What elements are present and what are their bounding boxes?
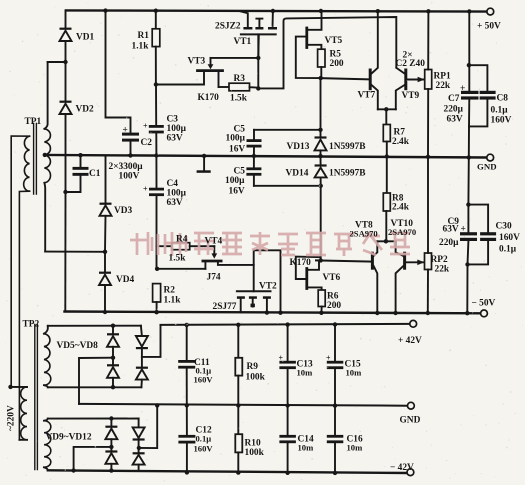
capacitor C7: [468, 11, 470, 90]
svg-text:16V: 16V: [229, 187, 245, 197]
svg-text:63V: 63V: [443, 225, 459, 235]
diode VD9: [110, 419, 112, 426]
resistor R4: [157, 245, 172, 247]
transformer TP2 primary winding: [21, 387, 27, 440]
terminal -42V: [407, 469, 414, 476]
svg-text:VT3: VT3: [188, 57, 206, 67]
wire C9C30 bottom to -50V rail: [466, 264, 468, 313]
wire lower bridge right mid to GND rail: [139, 405, 158, 448]
transistor VT10 2SA970: [403, 253, 406, 268]
svg-text:RP2: RP2: [431, 255, 448, 265]
svg-text:1.5k: 1.5k: [169, 254, 187, 264]
transformer TP2 secondary 2: [44, 421, 51, 468]
svg-text:VD13: VD13: [287, 142, 310, 152]
svg-text:1N5997B: 1N5997B: [329, 142, 365, 152]
svg-text:TP2: TP2: [23, 320, 40, 330]
transistor VT1 (2SJZ2 mosfet): [243, 27, 252, 30]
transformer TP1 core: [34, 124, 37, 195]
wire center 0V rail: [44, 155, 486, 158]
svg-text:VT6: VT6: [323, 273, 341, 283]
transistor VT4 (J74 jfet): [213, 246, 215, 254]
svg-text:R4: R4: [176, 235, 188, 245]
terminal -50V: [481, 310, 488, 317]
wire VT8 VT10 emitter node: [377, 240, 395, 242]
svg-text:C7: C7: [448, 94, 460, 104]
capacitor C9: [467, 157, 469, 232]
terminal GND lower: [408, 402, 415, 409]
svg-text:2.4k: 2.4k: [392, 203, 410, 213]
svg-text:VT1: VT1: [234, 37, 252, 47]
capacitor C14: [287, 406, 289, 435]
wire VT5 drain from top rail: [320, 10, 321, 12]
svg-text:1.5k: 1.5k: [230, 94, 248, 104]
wire VD1-VD2 node to secondary: [48, 61, 66, 63]
svg-text:VT4: VT4: [205, 237, 223, 247]
svg-text:VD3: VD3: [114, 206, 133, 216]
wire upper bridge left mid to GND: [79, 358, 113, 404]
resistor R10: [237, 406, 239, 435]
svg-text:VD4: VD4: [116, 275, 135, 285]
resistor R5: [318, 49, 325, 67]
capacitor C4: [155, 156, 157, 188]
wire top rail jog to C2: [106, 11, 131, 133]
svg-text:+: +: [143, 185, 148, 194]
transformer TP2 secondary 1: [44, 334, 51, 385]
svg-text:100μ: 100μ: [225, 176, 245, 186]
resistor R1: [155, 11, 157, 29]
wire C7C8 bottom to 0V rail: [468, 126, 470, 157]
svg-text:22k: 22k: [435, 265, 450, 275]
svg-text:− 50V: − 50V: [472, 299, 496, 309]
svg-text:VT7: VT7: [358, 91, 376, 101]
terminal +50V: [487, 8, 494, 15]
svg-text:10m: 10m: [297, 368, 314, 378]
terminal GND upper: [487, 154, 494, 161]
svg-text:63V: 63V: [167, 198, 183, 208]
svg-text:160V: 160V: [491, 116, 512, 126]
resistor R6: [308, 287, 322, 290]
svg-text:C8: C8: [497, 94, 509, 104]
diode VD12: [138, 448, 140, 453]
svg-text:63V: 63V: [167, 134, 183, 144]
capacitor C5: [253, 130, 255, 139]
diode VD8: [141, 357, 143, 367]
diode VD3: [100, 203, 112, 205]
svg-text:160V: 160V: [194, 444, 214, 454]
terminals: [407, 8, 494, 475]
svg-text:2×3300μ: 2×3300μ: [109, 162, 144, 172]
svg-text:+: +: [279, 354, 284, 363]
svg-text:GND: GND: [400, 416, 421, 426]
wire TP1 primary bottom lead to ~220V line: [19, 191, 29, 440]
svg-text:+: +: [461, 225, 466, 235]
potentiometer RP1: [425, 70, 432, 90]
svg-text:+ 50V: + 50V: [477, 22, 501, 32]
wire -42V rail: [48, 470, 407, 473]
transistor VT8 2SA970: [371, 253, 374, 268]
transistor VT2 (2SJ77 mosfet): [237, 290, 271, 292]
svg-text:VT5: VT5: [325, 36, 343, 46]
terminal +42V: [410, 320, 417, 327]
diode VD7: [141, 326, 142, 336]
svg-text:J74: J74: [207, 273, 221, 283]
svg-text:2SJZ2: 2SJZ2: [215, 22, 241, 32]
svg-text:VT2: VT2: [259, 282, 277, 292]
diode VD6: [107, 364, 119, 366]
wire GND lower rail: [79, 404, 407, 406]
svg-text:200: 200: [327, 301, 341, 311]
svg-text:VD14: VD14: [286, 169, 309, 179]
svg-text:+: +: [123, 126, 128, 136]
diode VD11: [138, 419, 140, 428]
svg-text:C2: C2: [141, 138, 153, 148]
svg-text:200: 200: [330, 59, 344, 69]
capacitor C8: [469, 65, 487, 91]
diode VD10: [105, 450, 117, 452]
transistor VT7: [369, 70, 372, 89]
svg-text:+: +: [460, 84, 465, 94]
svg-text:R5: R5: [330, 50, 342, 60]
wire upper bridge top: [48, 325, 141, 327]
svg-text:R10: R10: [245, 439, 261, 449]
diode VD13 1N5997B: [320, 78, 322, 137]
svg-text:10m: 10m: [346, 368, 363, 378]
svg-text:2.4k: 2.4k: [392, 137, 410, 147]
svg-text:VT9: VT9: [402, 91, 420, 101]
svg-text:K170: K170: [290, 258, 312, 268]
capacitor C1: [73, 167, 89, 170]
svg-text:VD5~VD8: VD5~VD8: [57, 341, 99, 351]
wire C5 top to VD13 node: [254, 129, 321, 131]
svg-text:+ 42V: + 42V: [398, 336, 422, 346]
svg-text:2SJ77: 2SJ77: [213, 302, 237, 312]
svg-text:220μ: 220μ: [444, 105, 464, 115]
wire lower bridge top: [48, 418, 139, 420]
svg-text:+: +: [143, 122, 148, 131]
resistor R9: [237, 325, 239, 358]
wire TP1 secondary bottom lead: [43, 183, 46, 252]
svg-text:C30: C30: [496, 222, 512, 232]
svg-text:C3: C3: [167, 115, 179, 125]
wire TP2 primary leads: [11, 387, 28, 440]
diode VD2: [60, 101, 72, 103]
wire VT4 drain to VT2 gate: [218, 261, 254, 265]
svg-text:RP1: RP1: [434, 72, 451, 82]
svg-text:R1: R1: [138, 31, 150, 41]
capacitor C30: [468, 205, 488, 233]
wire VT3 gate to node: [211, 57, 259, 59]
wire VT1 source loop to R3 node: [258, 17, 396, 88]
capacitor C13: [287, 325, 289, 361]
svg-text:63V: 63V: [447, 115, 463, 125]
capacitor C12: [186, 405, 188, 435]
svg-text:160V: 160V: [194, 375, 214, 385]
svg-text:R9: R9: [247, 362, 259, 372]
svg-text:10m: 10m: [347, 443, 364, 453]
svg-text:2SA970: 2SA970: [388, 227, 416, 237]
svg-text:R2: R2: [164, 286, 176, 296]
svg-text:VD2: VD2: [76, 105, 95, 115]
svg-text:+: +: [326, 354, 331, 363]
svg-text:100k: 100k: [246, 373, 266, 383]
svg-text:2SA970: 2SA970: [350, 229, 378, 239]
svg-text:VD1: VD1: [76, 33, 95, 43]
svg-text:0.1μ: 0.1μ: [196, 434, 212, 444]
svg-text:~220V: ~220V: [7, 405, 17, 431]
wire VT1 gate down: [257, 34, 260, 58]
wire upper bridge bottom: [48, 386, 142, 388]
capacitor C16: [334, 406, 336, 435]
diode VD4: [99, 272, 111, 274]
transformer TP2 core: [35, 325, 38, 470]
resistor R8: [386, 157, 388, 194]
wire upper bridge right mid to +42V: [142, 325, 161, 357]
transistor VT5 (jfet current source): [305, 28, 308, 48]
wire top +rail: [66, 10, 489, 11]
svg-text:K170: K170: [198, 93, 220, 103]
capacitor C6: [253, 156, 255, 167]
svg-text:1.1k: 1.1k: [164, 296, 182, 306]
svg-text:TP1: TP1: [25, 117, 42, 127]
svg-text:160V: 160V: [499, 233, 520, 243]
svg-text:− 42V: − 42V: [390, 463, 414, 473]
wire VT10 base to RP2: [405, 261, 424, 263]
diode VD5: [112, 326, 114, 334]
svg-text:C2 Z40: C2 Z40: [396, 59, 426, 69]
diode VD1: [65, 10, 67, 27]
resistor R7: [385, 109, 387, 124]
watermark 杭州将睿科技有限公司: [130, 232, 410, 256]
wire VD2 line down to -rail: [64, 192, 66, 312]
resistor R3: [219, 86, 230, 88]
transistor VT3 (K170 jfet): [198, 69, 223, 72]
wire +42V rail: [161, 324, 410, 325]
wire VT4 source to R4 left column: [157, 268, 206, 270]
svg-text:R7: R7: [394, 128, 406, 138]
diode VD14 1N5997B: [320, 156, 322, 165]
wire -50V rail: [65, 312, 481, 314]
svg-text:0.1μ: 0.1μ: [499, 245, 517, 255]
svg-text:100V: 100V: [119, 172, 140, 182]
ground symbol: [203, 156, 205, 170]
svg-text:16V: 16V: [229, 145, 245, 155]
wire base line to VT7: [321, 78, 369, 79]
wire TP1 primary top lead to ~220V line: [11, 136, 29, 387]
transformer TP1 secondary winding: [44, 129, 50, 183]
svg-text:R6: R6: [327, 292, 339, 302]
transformer TP1 primary winding: [24, 136, 30, 191]
svg-text:GND: GND: [477, 162, 497, 172]
svg-text:1N5997B: 1N5997B: [329, 169, 365, 179]
svg-text:C4: C4: [167, 179, 179, 189]
wire C6 bottom to VD14 node: [254, 185, 321, 187]
svg-text:22k: 22k: [436, 81, 451, 91]
transistor VT9: [404, 70, 407, 89]
svg-text:C1: C1: [89, 169, 101, 179]
capacitor C11: [186, 325, 188, 360]
wire secondary bottom to VD3/VD4 node: [45, 251, 105, 253]
svg-text:100μ: 100μ: [167, 124, 187, 134]
resistor R2: [153, 284, 161, 302]
wire VT6 drain to VT8 base: [316, 260, 372, 261]
capacitor C15: [334, 325, 336, 361]
svg-text:C5: C5: [234, 167, 246, 177]
svg-text:VD9~VD12: VD9~VD12: [46, 433, 92, 443]
transistor VT6 (K170 jfet): [305, 269, 308, 289]
svg-text:R3: R3: [234, 74, 246, 84]
capacitor C3: [155, 85, 157, 126]
wire VT2 gate up and loop: [254, 250, 281, 312]
potentiometer RP2: [425, 253, 432, 270]
svg-text:100μ: 100μ: [226, 134, 246, 144]
wire TP1 secondary top lead: [44, 62, 65, 129]
wire VD14 node down to VT6: [320, 186, 322, 260]
svg-text:0.1μ: 0.1μ: [491, 106, 509, 116]
svg-text:10m: 10m: [298, 443, 315, 453]
svg-text:220μ: 220μ: [439, 238, 459, 248]
wire VT9 base to RP1: [407, 79, 425, 81]
svg-text:100k: 100k: [245, 448, 265, 458]
wire lower bridge left mid to -42V rail: [74, 447, 112, 471]
capacitor C2: [122, 133, 139, 136]
wire R3 node vertical: [257, 35, 259, 88]
svg-text:1.1k: 1.1k: [132, 41, 150, 51]
svg-text:100μ: 100μ: [167, 189, 187, 199]
